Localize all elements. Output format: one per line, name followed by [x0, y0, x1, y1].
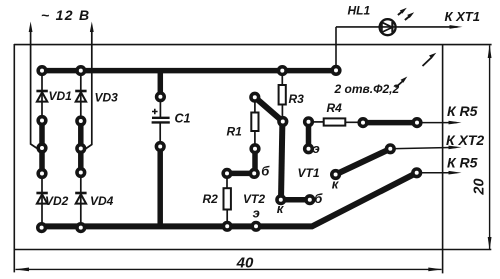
wire right diode column thin	[80, 71, 82, 228]
svg-text:VT2: VT2	[243, 192, 265, 206]
LED HL1	[348, 4, 396, 36]
wire to R5 bottom with arrow	[417, 172, 457, 174]
svg-text:~ 12 В: ~ 12 В	[41, 7, 90, 23]
pad VD3 cathode	[77, 117, 85, 125]
wire top power trace	[42, 68, 336, 74]
resistor R3	[279, 71, 305, 122]
wire diagonal R1 top to R3 bottom	[255, 97, 283, 121]
pad top trace R3	[279, 67, 287, 75]
pad R5 wire top	[413, 119, 421, 127]
wire AC input right with up arrow	[81, 30, 92, 149]
pad VD1 cathode	[38, 117, 46, 125]
pad VT2 collector	[277, 196, 285, 204]
wire diagonal VT1 collector to XT2 pad	[336, 149, 391, 175]
svg-text:R4: R4	[327, 101, 343, 115]
wire AC input left with up arrow	[31, 30, 41, 148]
svg-text:б: б	[261, 164, 270, 179]
svg-text:К ХТ2: К ХТ2	[446, 132, 484, 148]
svg-text:C1: C1	[175, 112, 191, 126]
diode VD4	[75, 193, 113, 208]
pad AC node left	[38, 144, 46, 152]
capacitor C1	[152, 96, 191, 147]
pad R5 wire bottom	[413, 169, 421, 177]
wire left diode column thin	[41, 71, 43, 228]
pad R1 top	[251, 93, 259, 101]
pad VD2 anode	[38, 170, 46, 178]
resistor R1	[227, 97, 259, 149]
svg-text:20: 20	[472, 178, 488, 195]
svg-text:К ХТ1: К ХТ1	[445, 9, 480, 24]
wire bottom trace with diagonal	[42, 173, 417, 227]
wire R1 bottom to VT2 base thick	[252, 149, 258, 174]
svg-text:э: э	[253, 205, 260, 220]
pad top trace second	[77, 67, 85, 75]
wire VT1 emitter to R4 left thick	[306, 122, 312, 149]
svg-text:40: 40	[236, 254, 254, 271]
pad R2 top	[223, 170, 231, 178]
pad R4 right	[359, 119, 367, 127]
pad VT1 base	[306, 196, 314, 204]
wire long vertical R3/VT2 collector	[281, 122, 282, 200]
dimension line 40	[16, 268, 442, 270]
svg-text:HL1: HL1	[348, 4, 371, 18]
svg-text:VT1: VT1	[298, 166, 320, 180]
wire VT2 collector to VT1 base bar	[281, 197, 310, 203]
svg-text:К R5: К R5	[447, 155, 478, 171]
diode VD3	[75, 91, 118, 105]
svg-text:R1: R1	[227, 125, 243, 139]
diode VD1	[36, 89, 72, 103]
svg-text:R2: R2	[203, 192, 219, 206]
pad VD4 anode	[77, 169, 85, 177]
dimension line 20	[489, 46, 491, 250]
pad VT2 emitter	[252, 223, 260, 231]
pad C1 minus	[156, 143, 164, 151]
svg-text:2 отв.Ф2,2: 2 отв.Ф2,2	[334, 82, 400, 96]
LED light arrows	[398, 8, 414, 20]
wire HL1 lead vertical and horizontal	[336, 27, 458, 71]
pad bottom trace left	[38, 224, 46, 232]
pad R4 left	[305, 118, 313, 126]
resistor R2	[203, 173, 231, 226]
pad VT2 base	[250, 170, 258, 178]
svg-text:VD4: VD4	[90, 194, 114, 208]
pad VT1 collector	[332, 171, 340, 179]
svg-text:VD1: VD1	[49, 89, 73, 103]
pad R2 bottom	[223, 223, 231, 231]
pad bottom trace VD4	[77, 224, 85, 232]
wire left diode column thick bar	[39, 121, 45, 174]
svg-text:К R5: К R5	[447, 103, 478, 119]
wire right diode column thick bar	[78, 121, 84, 173]
wire C1 top stub	[158, 68, 164, 96]
wire to XT2 with arrow	[390, 147, 456, 148]
pad top trace left	[38, 67, 46, 75]
wire R4 right thick bar	[363, 120, 417, 126]
diode VD2	[36, 193, 68, 208]
pad R1 bottom	[251, 145, 259, 153]
wire to R5 top with arrow	[417, 122, 457, 124]
pads (donut solder pads)	[38, 67, 421, 232]
pad VT1 emitter	[305, 145, 313, 153]
pad AC node right	[77, 145, 85, 153]
pad top trace end HL1	[332, 67, 340, 75]
pad C1 plus	[157, 93, 165, 101]
pad R3 bottom	[279, 118, 287, 126]
resistor R4	[309, 101, 364, 126]
svg-text:б: б	[314, 191, 323, 206]
wire C1 bottom bar	[157, 147, 163, 227]
svg-text:R3: R3	[289, 92, 305, 106]
svg-text:VD2: VD2	[45, 194, 69, 208]
svg-text:VD3: VD3	[95, 91, 119, 105]
pad XT2 wire	[387, 145, 395, 153]
board outline	[14, 44, 492, 273]
wire VT2 base to R2 top bar	[227, 171, 254, 177]
